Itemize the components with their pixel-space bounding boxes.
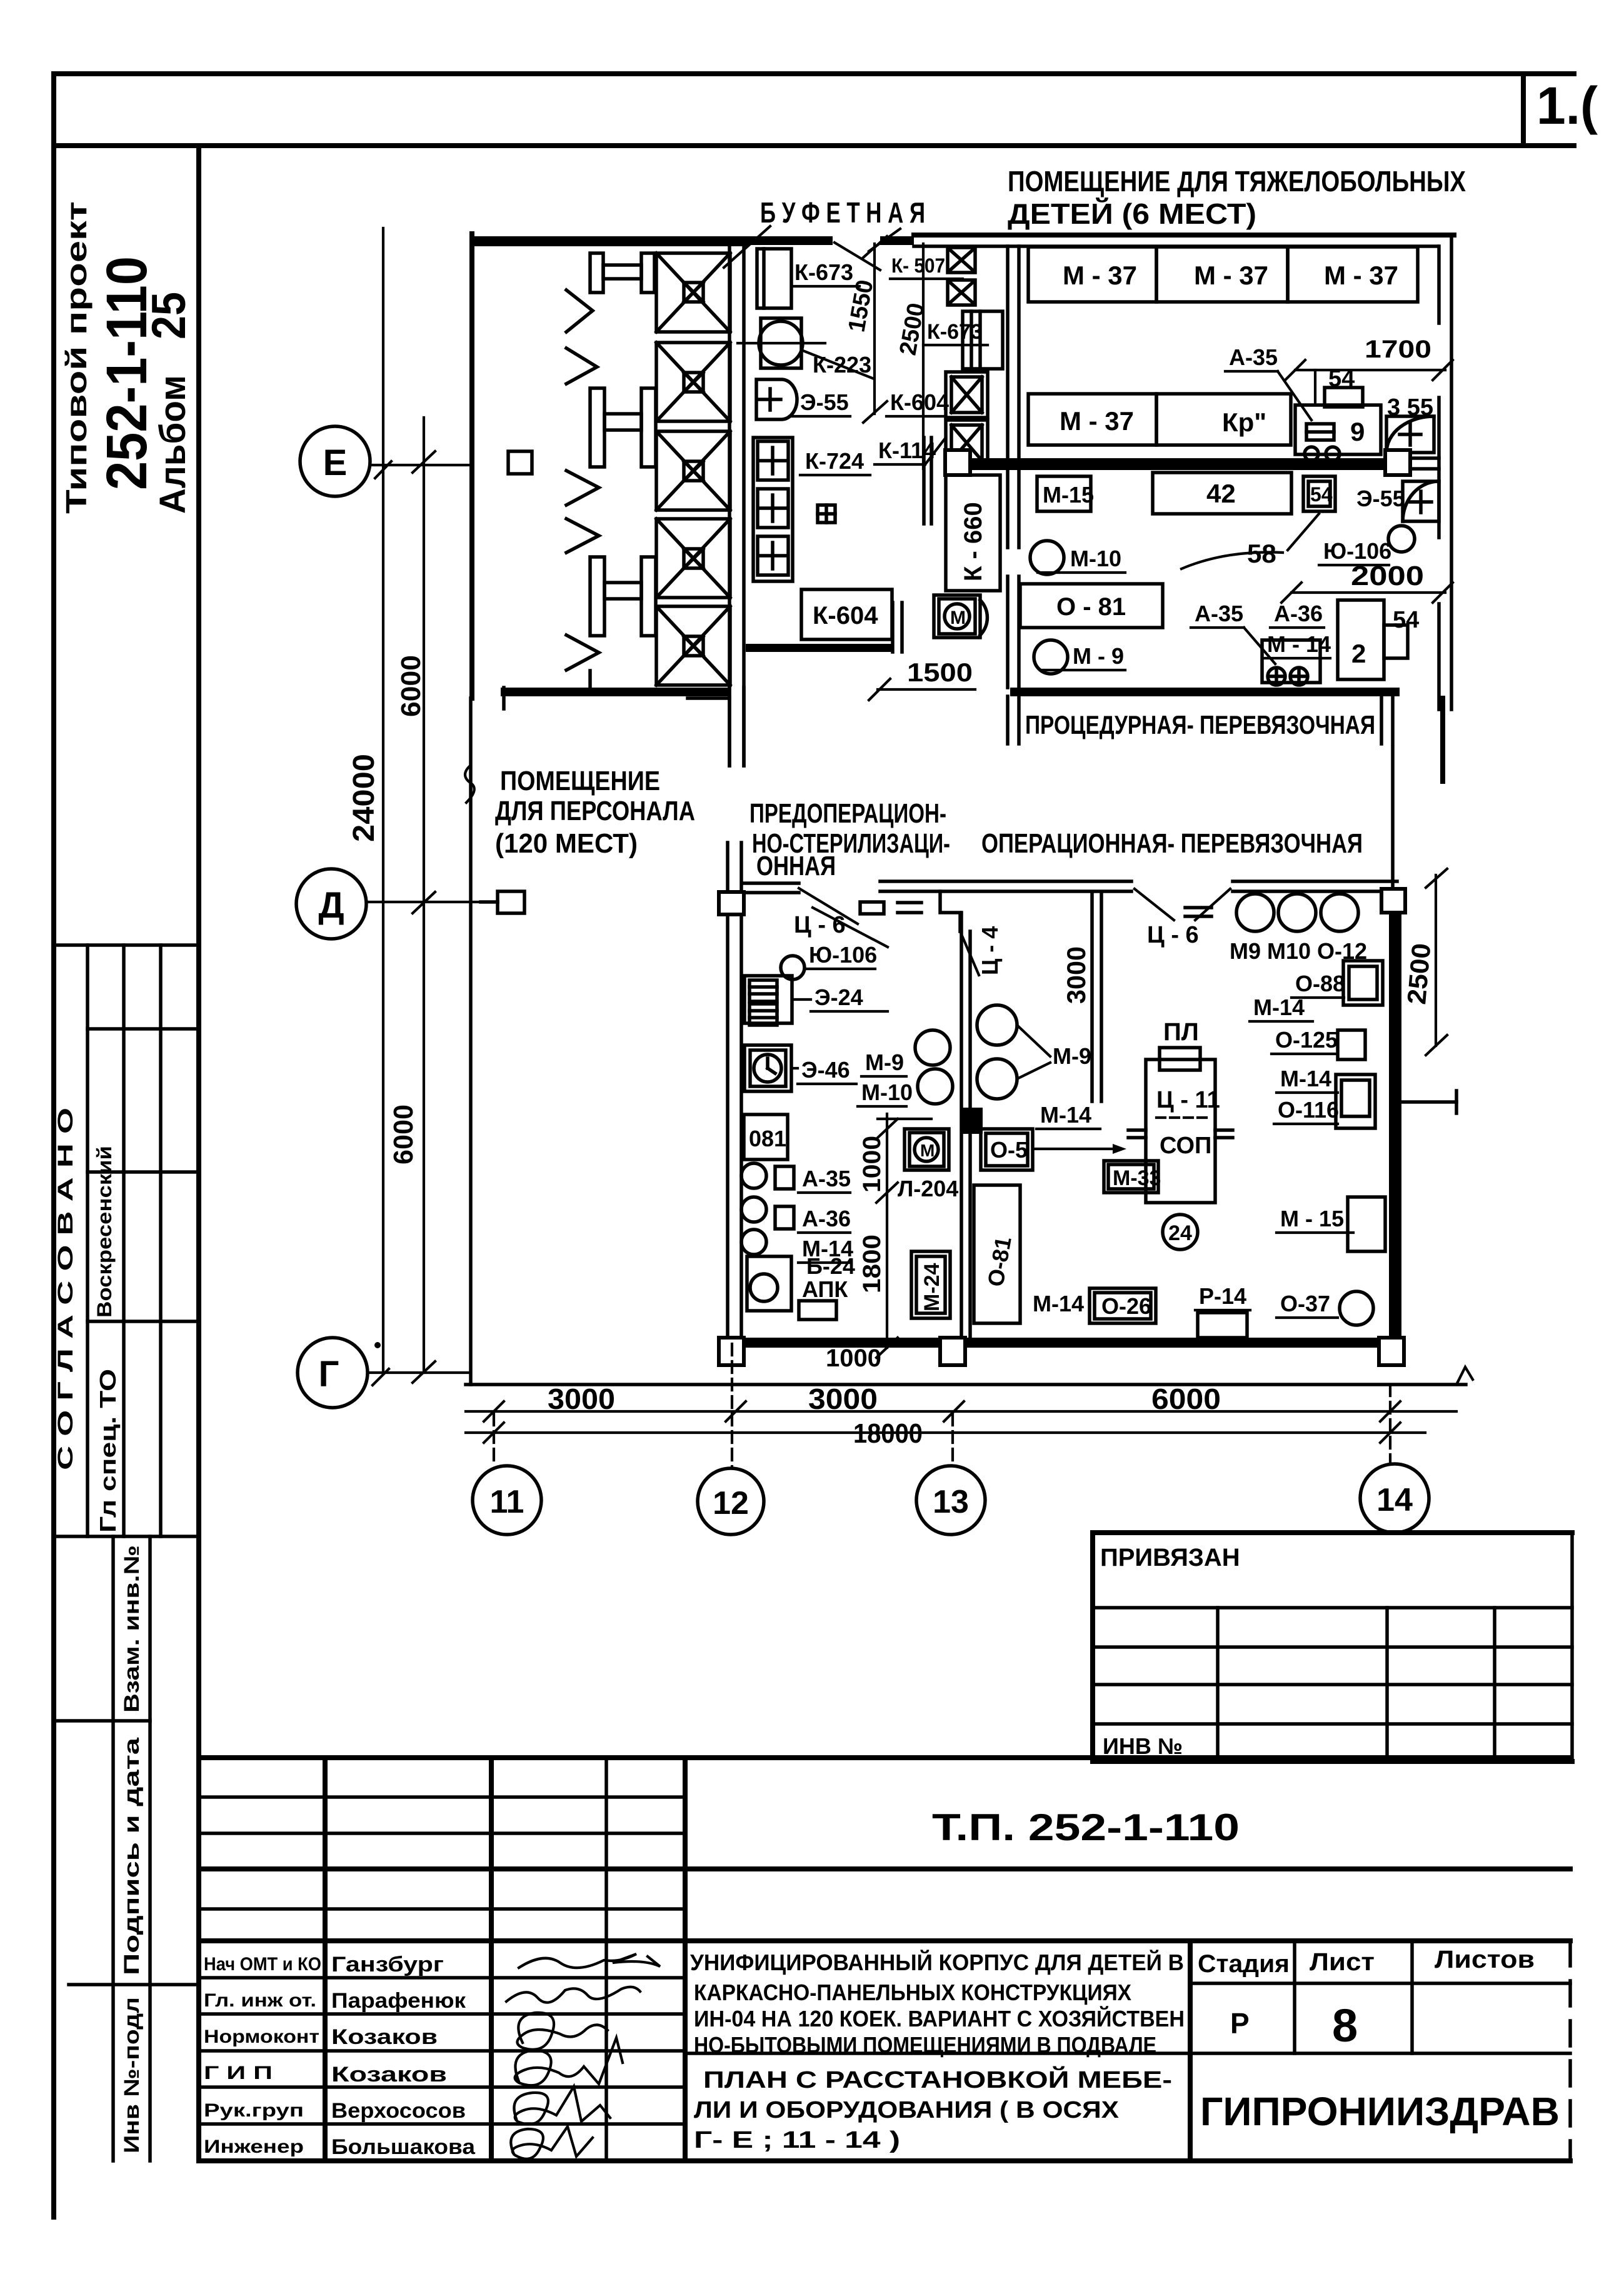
svg-text:9: 9 [1350,417,1365,446]
corner sink top [1386,416,1434,453]
svg-text:О-116: О-116 [1278,1097,1339,1123]
svg-text:Ц - 11: Ц - 11 [1156,1087,1220,1113]
svg-text:Гл спец. ТО: Гл спец. ТО [95,1369,121,1533]
corridor wall east line [742,245,746,766]
box 2 [1338,600,1384,679]
svg-text:Ю-106: Ю-106 [809,942,877,968]
svg-text:М - 37: М - 37 [1063,261,1137,290]
box 54 small [1303,476,1335,511]
svg-text:14: 14 [1376,1482,1413,1518]
svg-text:3000: 3000 [548,1383,615,1415]
svg-text:О-88: О-88 [1295,971,1345,996]
buffet south wall [746,644,893,652]
svg-text:Гл. инж от.: Гл. инж от. [204,1990,316,2011]
svg-text:ОПЕРАЦИОННАЯ- ПЕРЕВЯЗОЧНАЯ: ОПЕРАЦИОННАЯ- ПЕРЕВЯЗОЧНАЯ [981,828,1363,859]
svg-text:Воскресенский: Воскресенский [93,1146,116,1318]
Ю-106 circle and label [781,956,804,979]
svg-text:Ц - 4: Ц - 4 [977,926,1003,975]
dim line 24000 vertical [382,228,384,1373]
svg-text:3000: 3000 [808,1383,878,1415]
svg-text:СОП: СОП [1160,1133,1211,1159]
svg-text:Ю-106: Ю-106 [1323,538,1391,564]
svg-text:Э-55: Э-55 [1356,486,1405,511]
east wall [1450,235,1453,709]
svg-text:ПЛАН С РАССТАНОВКОЙ МЕБЕ-: ПЛАН С РАССТАНОВКОЙ МЕБЕ- [703,2065,1172,2093]
svg-text:О-125: О-125 [1275,1027,1338,1053]
bed 4 [656,519,730,598]
svg-text:М - 37: М - 37 [1060,406,1134,436]
axis G line [368,1371,470,1374]
K-604 box [801,589,892,639]
north wall right segment [1233,879,1397,883]
unit 9 [1295,405,1381,454]
svg-text:ОННАЯ: ОННАЯ [756,851,836,881]
svg-text:Л-204: Л-204 [898,1176,958,1201]
svg-text:Инженер: Инженер [204,2136,304,2157]
bed 1 [656,253,730,332]
svg-text:ДЕТЕЙ (6 МЕСТ): ДЕТЕЙ (6 МЕСТ) [1008,198,1256,230]
unit 9 taps [1305,447,1318,461]
chair mark 4 [566,519,599,553]
center wall [960,913,963,1338]
svg-text:(120 МЕСТ): (120 МЕСТ) [495,828,638,859]
axis circle 12 [698,1468,764,1535]
svg-text:К-604: К-604 [890,389,949,415]
svg-text:1700: 1700 [1365,336,1431,363]
row lines [199,1976,685,1980]
dim line 6000 vertical [423,418,425,1373]
main frame left edge [196,146,201,2161]
west wall [1006,246,1010,548]
svg-text:М-10: М-10 [1070,546,1121,571]
svg-text:М-24: М-24 [920,1263,944,1311]
svg-text:1000: 1000 [826,1345,881,1372]
sheet top band bottom line [54,143,1574,148]
svg-text:Б-24: Б-24 [806,1253,855,1279]
west wall post top [719,892,744,914]
left room north wall [470,236,749,246]
svg-text:ПРИВЯЗАН: ПРИВЯЗАН [1100,1544,1240,1571]
north wall double [914,233,1454,238]
north wall left segment [744,881,799,885]
buffet door leaf [835,243,880,270]
svg-text:М-14: М-14 [1040,1102,1091,1128]
svg-text:М - 37: М - 37 [1324,261,1398,290]
south wall [1010,688,1400,696]
partition wall mid [1090,893,1094,1101]
svg-text:2: 2 [1351,639,1366,668]
svg-text:М - 37: М - 37 [1194,261,1268,290]
K-507 fixtures [948,248,975,273]
svg-text:6000: 6000 [396,655,426,717]
axis circle 14 [1360,1464,1429,1533]
ground axis line [466,1383,1466,1386]
O-5 box [981,1129,1033,1170]
south wall posts [719,1338,744,1365]
M-10 circle [1030,541,1064,574]
svg-text:081: 081 [749,1126,786,1151]
K-673 second box [963,311,1003,369]
bed M-37 r2 [1028,394,1156,445]
Э-24 hatched boxes [744,976,792,1023]
dim vertical 1000/1800 [886,1114,888,1348]
svg-text:КАРКАСНО-ПАНЕЛЬНЫХ КОНСТРУКЦИ: КАРКАСНО-ПАНЕЛЬНЫХ КОНСТРУКЦИЯХ [694,1980,1131,2005]
svg-text:М-33: М-33 [1113,1166,1161,1190]
chair mark 5 [566,635,599,670]
svg-text:ПРЕДОПЕРАЦИОН-: ПРЕДОПЕРАЦИОН- [749,798,946,829]
svg-text:Г И П: Г И П [204,2063,273,2083]
svg-text:Э-55: Э-55 [800,389,849,415]
svg-text:1000: 1000 [858,1136,886,1193]
svg-text:Взам. инв.№: Взам. инв.№ [120,1545,144,1713]
procedure room label box [1006,696,1010,744]
svg-text:Б У Ф Е Т Н А Я: Б У Ф Е Т Н А Я [760,196,925,229]
svg-text:А-35: А-35 [802,1166,851,1191]
buffet north wall segment [749,236,833,245]
axis circle 11 [473,1466,541,1535]
svg-text:Козаков: Козаков [331,2063,447,2086]
svg-text:К-114: К-114 [878,438,936,463]
svg-text:12: 12 [713,1485,749,1521]
svg-text:Козаков: Козаков [331,2025,438,2049]
bed 2 [656,343,730,421]
svg-text:Стадия: Стадия [1198,1950,1290,1978]
svg-text:Р: Р [1230,2007,1250,2040]
bed M-37 r1c1 [1028,247,1156,302]
M9 M10 O-12 circles [1236,894,1274,931]
box 42 [1153,473,1291,514]
corner sink bottom [1403,481,1439,521]
heavy partition posts [945,450,970,475]
svg-text:НО-БЫТОВЫМИ ПОМЕЩЕНИЯМИ В ПОДВ: НО-БЫТОВЫМИ ПОМЕЩЕНИЯМИ В ПОДВАЛЕ [694,2032,1156,2058]
right side stub below [1440,698,1445,781]
svg-text:К-724: К-724 [805,448,864,474]
svg-text:Верхососов: Верхососов [331,2099,466,2123]
svg-text:М-14: М-14 [1253,994,1305,1020]
bar-to-wall connector [1410,456,1439,460]
svg-text:АПК: АПК [802,1276,848,1302]
left room west wall [469,234,474,698]
axis G circle [298,1338,368,1408]
door area mid (Ц-4) [940,891,960,931]
svg-text:Лист: Лист [1310,1948,1375,1976]
chair mark 3 [566,471,599,505]
svg-text:М - 9: М - 9 [1073,643,1124,669]
axis E circle [300,426,370,496]
corridor top door diagonal [724,226,770,268]
north wall mid segment [880,879,1131,883]
svg-text:О-26: О-26 [1101,1293,1151,1319]
svg-text:ИН-04 НА 120 КОЕК. ВАРИАНТ С Х: ИН-04 НА 120 КОЕК. ВАРИАНТ С ХОЗЯЙСТВЕН [694,2005,1185,2031]
svg-text:Кр": Кр" [1222,408,1266,437]
svg-text:О-5: О-5 [990,1137,1028,1163]
M-9 circle [1034,640,1068,674]
door right (Ц-6) [1135,889,1174,920]
svg-text:М: М [950,608,966,628]
svg-text:Нач ОМТ и КО: Нач ОМТ и КО [204,1954,321,1975]
svg-text:13: 13 [933,1484,969,1520]
svg-text:Рук.груп: Рук.груп [204,2100,304,2121]
M-24 box [911,1251,950,1318]
svg-text:Т.П. 252-1-110: Т.П. 252-1-110 [932,1806,1240,1848]
south wall [728,1338,1401,1348]
svg-text:54: 54 [1310,483,1333,506]
svg-text:С О Г Л А С О В А Н О: С О Г Л А С О В А Н О [54,1108,78,1470]
privyazan box [1093,1533,1572,1761]
svg-text:М-14: М-14 [1033,1291,1084,1316]
east wall stub up [1391,747,1395,892]
small square in left room [508,451,532,474]
verticals [323,1758,328,2161]
axis D circle [296,869,366,939]
corridor wall west line [728,245,731,766]
main table top line [199,1755,1570,1760]
position circle 24 [1163,1215,1198,1250]
K-724 unit [753,438,793,581]
svg-text:М-9: М-9 [865,1049,904,1075]
svg-text:1.(: 1.( [1536,76,1598,135]
svg-text:42: 42 [1206,479,1236,508]
svg-text:Типовой проект: Типовой проект [60,201,93,514]
svg-text:6000: 6000 [388,1104,419,1165]
svg-text:6000: 6000 [1151,1383,1221,1415]
heavy partition bar [970,458,1385,470]
svg-text:2500: 2500 [1401,942,1436,1006]
svg-text:А-35: А-35 [1229,344,1278,370]
svg-text:К-673: К-673 [794,259,853,285]
chair mark 1 [566,290,593,332]
west wall [726,843,729,1344]
svg-text:А-36: А-36 [1274,601,1323,626]
svg-text:М-10: М-10 [861,1079,913,1105]
svg-text:Инв №-подл: Инв №-подл [120,1997,144,2153]
center wall black blob [963,1108,983,1134]
svg-text:25: 25 [143,292,196,339]
svg-text:ДЛЯ ПЕРСОНАЛА: ДЛЯ ПЕРСОНАЛА [495,796,695,826]
svg-text:Д: Д [318,885,344,926]
axis drop lines [493,1414,495,1465]
svg-text:Листов: Листов [1435,1946,1535,1973]
Э-46 clock box [744,1045,791,1091]
motor box Л-204 [905,1129,949,1170]
axis D line [366,901,481,903]
svg-text:252-1-110: 252-1-110 [95,256,159,490]
axis circle 13 [916,1466,985,1535]
081 box [744,1114,788,1160]
door leaf left [799,888,858,924]
K-223 washer [761,318,801,368]
svg-text:Ц - 6: Ц - 6 [1147,922,1199,948]
svg-text:М - 15: М - 15 [1280,1206,1344,1231]
left strips below soglasovano [111,1536,115,2161]
small box near axis D [498,891,524,913]
svg-text:Парафенюк: Парафенюк [331,1989,466,2013]
svg-text:3000: 3000 [1061,946,1091,1004]
table 2 [590,388,656,467]
svg-text:ПРОЦЕДУРНАЯ- ПЕРЕВЯЗОЧНАЯ: ПРОЦЕДУРНАЯ- ПЕРЕВЯЗОЧНАЯ [1025,710,1375,739]
axis E line [370,464,470,466]
bed Kr [1156,394,1291,445]
svg-text:ИНВ №: ИНВ № [1103,1733,1183,1759]
svg-text:11: 11 [490,1484,524,1520]
Б-24 box [747,1256,791,1311]
svg-text:Нормоконт: Нормоконт [204,2026,319,2047]
svg-text:ГИПРОНИИЗДРАВ: ГИПРОНИИЗДРАВ [1200,2089,1560,2134]
bed M-37 r1c3 [1288,247,1418,302]
svg-text:О-37: О-37 [1280,1291,1330,1316]
E-55 sink [756,379,797,419]
page number divider [1521,74,1526,146]
east heavy wall [1389,913,1401,1343]
M-15 box [1037,476,1091,511]
svg-text:ПОМЕЩЕНИЕ: ПОМЕЩЕНИЕ [500,766,660,796]
A-36 small box [775,1206,794,1229]
small grid box [818,505,835,523]
svg-text:К-604: К-604 [813,602,878,629]
svg-text:М-9: М-9 [1053,1043,1091,1069]
svg-text:Ганзбург: Ганзбург [331,1953,444,1976]
buffet north wall right segment [880,236,914,245]
svg-text:Э-46: Э-46 [801,1057,850,1083]
svg-text:К-673: К-673 [927,320,983,344]
svg-text:Альбом: Альбом [153,375,193,514]
signatures [519,1954,660,1968]
svg-text:8: 8 [1332,2000,1358,2051]
svg-text:24000: 24000 [348,754,381,842]
svg-text:Э-24: Э-24 [815,984,863,1010]
svg-text:К- 507: К- 507 [891,254,945,277]
svg-text:ПЛ: ПЛ [1163,1018,1199,1046]
left room south wall [501,688,729,696]
svg-text:О - 81: О - 81 [1056,593,1126,621]
A-35 small box [775,1166,794,1189]
bed 3 [656,431,730,510]
unit Ц-11 СОП [1128,1048,1233,1203]
bed 5 [656,606,730,685]
O-81 tall box [974,1185,1020,1323]
svg-text:УНИФИЦИРОВАННЫЙ КОРПУС ДЛЯ Д: УНИФИЦИРОВАННЫЙ КОРПУС ДЛЯ ДЕТЕЙ В [690,1949,1184,1975]
svg-text:Г: Г [319,1354,339,1395]
M-9 circles steril [977,1005,1017,1045]
dim line 18000 [466,1431,1425,1434]
svg-text:М-15: М-15 [1043,482,1094,508]
chair mark 2 [566,348,597,384]
M-33 box [1104,1161,1158,1193]
table 3 [590,557,656,636]
svg-text:54: 54 [1393,607,1419,633]
east wall window sill [1401,1100,1456,1104]
svg-text:А-35: А-35 [1195,601,1243,626]
K-604 hatched boxes [946,372,988,418]
svg-text:Е: Е [323,443,348,483]
svg-text:Ц - 6: Ц - 6 [794,912,846,938]
washstand pair box [1262,640,1320,685]
svg-text:М: М [920,1141,935,1160]
wall break brace [465,766,474,803]
svg-text:Р-14: Р-14 [1199,1283,1246,1309]
svg-text:ПОМЕЩЕНИЕ ДЛЯ ТЯЖЕЛОБОЛЬНЫХ: ПОМЕЩЕНИЕ ДЛЯ ТЯЖЕЛОБОЛЬНЫХ [1008,165,1466,198]
K-660 tall box [946,475,1000,591]
table 1 [590,253,654,293]
svg-text:2000: 2000 [1351,561,1424,591]
svg-text:18000: 18000 [853,1418,923,1449]
svg-text:Большакова: Большакова [331,2135,476,2159]
wall basins [741,1163,766,1255]
svg-text:К - 660: К - 660 [960,502,987,581]
svg-text:Г- Е ; 11 - 14 ): Г- Е ; 11 - 14 ) [694,2127,900,2153]
O-26 box [1090,1288,1156,1323]
svg-text:Подпись и дата: Подпись и дата [120,1736,144,1975]
svg-text:1500: 1500 [907,658,973,687]
K-673 box [757,249,791,308]
svg-text:М-14: М-14 [1280,1066,1331,1091]
soglasovano block grid [54,943,199,947]
M motor box at buffet exit [934,595,980,638]
svg-text:1800: 1800 [858,1235,886,1293]
bed M-37 r1c2 [1156,247,1288,302]
east wall post top [1381,889,1405,913]
corridor stub above [728,688,731,766]
svg-text:24: 24 [1168,1221,1192,1245]
K-660 wall stub [922,438,926,524]
svg-text:ЛИ И ОБОРУДОВАНИЯ ( В ОСЯХ: ЛИ И ОБОРУДОВАНИЯ ( В ОСЯХ [694,2097,1120,2123]
svg-text:А-36: А-36 [802,1206,851,1231]
O-81 box [1020,584,1163,628]
dim line 3000/3000/6000 [466,1410,1456,1413]
